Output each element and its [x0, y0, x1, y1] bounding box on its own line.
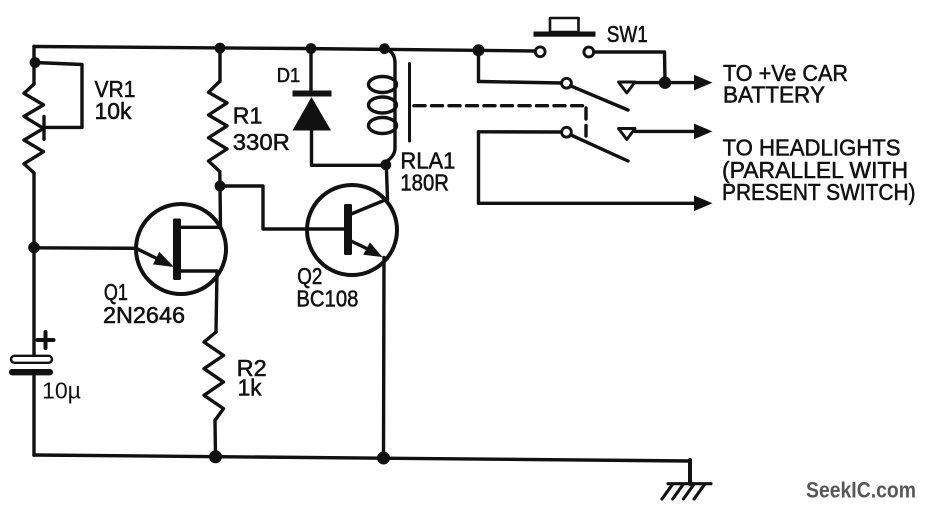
label Q1 — [104, 279, 128, 305]
transistor Q2 emitter arrow — [351, 241, 383, 257]
transistor Q2 base bar — [344, 204, 352, 255]
node D1 top junction — [306, 43, 317, 54]
label RLA1 value 180R — [400, 170, 449, 196]
wire capacitor to bottom rail — [32, 375, 35, 455]
wire contact A to arrow — [635, 81, 696, 84]
node left VR1 tap junction — [30, 57, 41, 68]
transistor Q1 circle — [136, 204, 226, 294]
wire contact B to arrow — [635, 130, 696, 133]
label Q2 — [297, 263, 322, 289]
svg-text:2N2646: 2N2646 — [103, 302, 185, 328]
label Q2 type BC108 — [296, 286, 358, 312]
wire R1 top stub — [218, 48, 221, 82]
svg-text:SeekIC.com: SeekIC.com — [806, 478, 916, 503]
wire R1 junction down to Q1 base2 — [182, 186, 221, 227]
label TO HEADLIGHTS — [723, 135, 901, 161]
svg-text:10µ: 10µ — [42, 378, 81, 404]
label D1 — [277, 65, 301, 87]
wire VR1 wiper link rectangle — [35, 63, 82, 140]
node relay bottom junction — [380, 159, 391, 170]
transistor Q2 circle — [307, 185, 397, 275]
label VR1 value 10k — [95, 98, 132, 124]
switch SW1 contact circles — [535, 47, 593, 57]
svg-text:R1: R1 — [233, 103, 263, 129]
transistor Q1 emitter arrow — [136, 248, 174, 267]
label R2 value 1k — [238, 374, 262, 400]
node Q1 emitter junction on left rail — [28, 242, 40, 254]
dashed link relay to contacts — [414, 106, 586, 136]
switch SW1 pushbutton — [534, 18, 596, 37]
arrow to present switch — [694, 196, 713, 212]
relay contact A fixed triangle — [619, 82, 636, 93]
wire left rail (top corner down to capacitor) — [32, 47, 35, 357]
label VR1 — [95, 76, 136, 102]
label R1 value 330R — [233, 129, 290, 155]
relay contact A pole wire — [479, 82, 562, 84]
resistor R1 — [209, 82, 228, 172]
wire bottom rail to ground — [688, 460, 692, 484]
svg-text:D1: D1 — [277, 65, 301, 87]
wire branch down to contact A — [477, 50, 480, 81]
wire parallel feed to arrow — [479, 202, 697, 205]
wire R1 junction to Q2 base — [220, 186, 344, 229]
svg-text:330R: 330R — [233, 129, 290, 155]
wire R2 bottom stub — [213, 420, 217, 456]
relay contact B fixed triangle — [619, 129, 636, 140]
arrow to +Ve car battery — [694, 75, 713, 91]
label C1 value 10u — [42, 378, 81, 404]
watermark SeekIC.com — [806, 478, 916, 503]
node relay top junction — [379, 43, 390, 54]
label RLA1 — [400, 148, 455, 174]
wire top rail — [34, 47, 535, 52]
svg-text:BATTERY: BATTERY — [723, 82, 825, 108]
relay contact A moving arm — [571, 86, 629, 110]
node R1 bottom junction — [215, 181, 226, 192]
relay contact B pole wire — [479, 130, 562, 134]
label R1 — [233, 103, 263, 129]
node SW1 branch junction on top rail — [473, 44, 485, 56]
transistor Q1 base bar — [173, 219, 181, 281]
svg-text:10k: 10k — [95, 98, 132, 124]
arrow to headlights — [694, 124, 713, 140]
label PARALLEL WITH — [722, 157, 908, 183]
wire bottom rail — [34, 455, 690, 461]
node R2 bottom junction — [209, 450, 222, 463]
label TO +Ve CAR — [723, 60, 848, 86]
resistor R2 — [204, 332, 224, 420]
relay coil RLA1 — [369, 49, 397, 165]
label R2 — [237, 355, 267, 381]
ground symbol — [662, 484, 711, 499]
relay contact B moving arm — [571, 135, 629, 161]
potentiometer VR1 — [24, 84, 44, 173]
wire D1 bottom to relay junction — [312, 131, 386, 166]
wire D1 top stub — [309, 49, 312, 92]
label BATTERY — [723, 82, 825, 108]
relay core bar — [408, 64, 411, 142]
svg-text:SW1: SW1 — [607, 21, 648, 47]
diode D1 — [293, 91, 332, 131]
wire left rail to Q1 emitter — [34, 246, 136, 250]
wire relay bottom to Q2 collector — [386, 165, 387, 199]
label SW1 — [607, 21, 648, 47]
wire SW1 to battery node — [594, 52, 665, 83]
node Q2 emitter bottom junction — [377, 452, 390, 465]
svg-text:180R: 180R — [400, 170, 449, 196]
node battery junction — [659, 77, 671, 89]
node R1 top junction — [215, 43, 226, 54]
capacitor C1 top plate — [11, 356, 52, 363]
label Q1 type 2N2646 — [103, 302, 185, 328]
transistor Q1 base1 lead — [181, 271, 217, 332]
svg-text:BC108: BC108 — [296, 286, 358, 312]
relay contact B pole circle — [562, 127, 572, 137]
label PRESENT SWITCH — [722, 179, 916, 205]
capacitor C1 plus sign — [38, 332, 54, 348]
relay contact A pole circle — [562, 78, 572, 88]
wire R1 bottom stub — [218, 171, 222, 186]
transistor Q2 collector lead — [350, 199, 388, 215]
svg-text:PRESENT SWITCH): PRESENT SWITCH) — [722, 179, 916, 205]
capacitor C1 bottom plate — [9, 369, 53, 375]
wire Q2 emitter down to bottom rail — [382, 258, 386, 459]
svg-text:1k: 1k — [238, 374, 262, 400]
wire contact B down to parallel feed — [477, 132, 480, 204]
